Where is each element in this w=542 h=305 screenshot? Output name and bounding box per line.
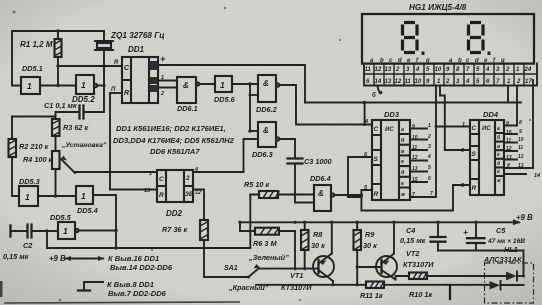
wire: R network top rail [12, 116, 56, 118]
NAND DD6.1 [177, 77, 199, 103]
node [248, 129, 251, 132]
wire: green contact to VT1 base [260, 268, 319, 270]
capacitor C5 electrolytic [467, 222, 485, 250]
node [114, 246, 117, 249]
NAND DD6.4 [314, 185, 334, 211]
node [435, 125, 438, 128]
+9V bus [240, 221, 519, 223]
wire: R4 bottom to DD5.3 out node [55, 169, 57, 196]
node [303, 221, 306, 224]
wire: DD5.4 out right and down [93, 195, 116, 248]
wire: DD6.2 out to DD3 C [279, 85, 372, 125]
node: R1 bottom to y66 wire [56, 64, 59, 67]
diode VD green [506, 272, 517, 281]
node: bus crossing [443, 101, 446, 104]
7-seg digit 1 [403, 23, 418, 53]
diode VD red [448, 276, 524, 290]
inverter DD5.4 [76, 186, 93, 204]
capacitor C1 [56, 106, 105, 119]
wire: DD4 risers to display [508, 86, 517, 126]
node [363, 123, 366, 126]
node: crystal/DD5.2 out [102, 84, 105, 87]
counter DD3 [372, 120, 410, 200]
node [114, 229, 117, 232]
segment letter row digit2 [449, 58, 505, 64]
wire: DD6.4 out to DD3 R [334, 190, 372, 195]
wire: DD6.2 lower input stub [250, 94, 258, 96]
node [249, 94, 252, 97]
wire: DD1 top output long to x305 [158, 64, 305, 66]
wire: R4 wiper to DD2 C [75, 171, 157, 173]
transistor VT2 [376, 222, 409, 279]
segment letter row digit1 [370, 58, 430, 64]
wire: reset to DD4 R [361, 185, 470, 211]
inverter DD5.3 [19, 186, 38, 206]
resistor R8 [301, 222, 309, 268]
wire: R6 to VT1 base rail [294, 231, 296, 269]
counter DD2 [157, 170, 194, 202]
wire: DD1 out 1 to DD6.1 [158, 80, 177, 82]
DD4 pin numbers [506, 120, 524, 169]
resistor R7 [200, 220, 208, 277]
wire: DD5.5 out joins DD5.4 branch [79, 230, 116, 232]
node: C3/R5/DD6.4 [293, 193, 296, 196]
wire: VT2 base from R9 column [357, 266, 381, 268]
wire: branch down to DD3 C [364, 103, 366, 125]
node: clock distribution [248, 82, 251, 85]
node: R4 bottom junction [54, 194, 57, 197]
wire: DD2 out12 to R7 [193, 190, 204, 221]
display HG1 box [362, 14, 534, 64]
wire: C1 left lead down to R network top [55, 112, 57, 119]
switch SA1 [204, 264, 260, 279]
crystal ZQ1 [95, 31, 113, 112]
wire: DD6.4 lower input [295, 195, 314, 203]
inverter DD5.1 [21, 77, 40, 94]
node [474, 221, 477, 224]
node: DD5.1 output junction [56, 84, 59, 87]
node [436, 221, 439, 224]
node [360, 196, 363, 199]
display pin 6 hook [378, 86, 381, 93]
transistor VT1 [313, 222, 334, 284]
node VT2 emitter on bus [392, 221, 395, 224]
wire: x305 riser from DD1 top out [304, 65, 306, 103]
inverter DD5.6 [215, 76, 232, 92]
display pin strip [364, 64, 537, 86]
wire: DD1 out 2 to DD6.1 [158, 87, 177, 89]
wire: DD5.2 out to crystal bottom node [97, 85, 104, 87]
wire: DD2 out4 right and up to DD6.3 lower input [193, 139, 258, 172]
supply annotation arrow [66, 258, 103, 260]
common terminal symbol [78, 282, 103, 291]
wire: reset riser down to DD2 R [110, 93, 157, 190]
NAND DD6.2 [258, 75, 279, 102]
wire: reset rail to R5 column [47, 247, 250, 249]
wire: DD6.3 upper input [250, 130, 258, 132]
wire: DD3 riser to display [435, 86, 437, 197]
resistor R9 [354, 222, 362, 284]
wire: red line [256, 284, 448, 286]
resistor R10 [409, 273, 506, 280]
wire: branch down to reset rail [46, 231, 48, 248]
decimal point 1 [422, 52, 425, 55]
wire: right riser pin14 [532, 80, 534, 168]
decimal point 2 [488, 52, 491, 55]
paper texture [0, 0, 1, 1]
capacitor C4 [431, 222, 446, 250]
wire: DD4 C feed from riser [436, 126, 470, 128]
node LED common [522, 275, 525, 278]
wire: left branch down to DD5.3 [11, 117, 13, 140]
resistor R6 [240, 222, 295, 234]
terminal tick [449, 285, 451, 299]
node [293, 267, 296, 270]
scan artifact bottom line [4, 302, 240, 303]
7-seg digit 2 [469, 23, 484, 53]
node: C2/DD5.5 input branch [45, 229, 48, 232]
trimmer R4 [52, 151, 75, 173]
wire: R5 left leg down to reset rail [249, 195, 251, 249]
wire: left vertical to DD5.1 input [12, 31, 21, 86]
resistor R11 [366, 282, 384, 289]
wire: top oscillator horizontal [12, 30, 104, 32]
node R9 bottom on red line [356, 283, 359, 286]
node: R1 top junction [56, 29, 59, 32]
node VT1 emitter on bus [330, 221, 333, 224]
inverter DD5.2 [76, 75, 97, 94]
resistor R3 [52, 119, 60, 136]
resistor R1 [55, 31, 62, 86]
wire: display jog riser to DD4 S [440, 86, 470, 150]
wire: DD6.3 out down to C3 [279, 139, 295, 158]
capacitor C3 [288, 159, 303, 195]
wire: top distribution bus [305, 102, 521, 104]
capacitor C2 [11, 225, 59, 238]
node bus corner [238, 221, 241, 224]
wire: DD1 K input [110, 92, 122, 94]
counter DD4 [470, 120, 504, 195]
wire: oscillator out to DD1 C input [58, 65, 122, 67]
node on bus [293, 221, 296, 224]
inverter DD5.5 [58, 222, 79, 239]
DD4 segment output stubs [504, 126, 533, 175]
node: crossing y66 [102, 64, 105, 67]
wire: cap common to LED cathode [438, 251, 524, 277]
NAND DD6.3 [258, 122, 279, 147]
resistor R2 [9, 139, 20, 196]
counter DD1 [122, 57, 158, 103]
wire: clock riser down [249, 84, 251, 131]
wire: DD5.1 out to DD5.2 in [40, 85, 76, 87]
node: DD3 C branch [363, 101, 366, 104]
node [360, 193, 363, 196]
wire: DD5.6 out to DD6.2 [232, 83, 258, 85]
resistor R5 [250, 191, 314, 198]
DD3 segment output stubs [410, 129, 436, 198]
wire: R3 to R4 [55, 136, 57, 151]
node VT1 collector [331, 283, 334, 286]
DD3 pin numbers column [412, 123, 433, 198]
node [356, 221, 359, 224]
wire: DD6.1 out to DD5.6 [199, 83, 215, 85]
wire: DD5.3 out to DD5.4 in [38, 195, 76, 197]
wire: DD3 S left branch [348, 157, 372, 197]
LED assembly dashed box [485, 263, 534, 303]
